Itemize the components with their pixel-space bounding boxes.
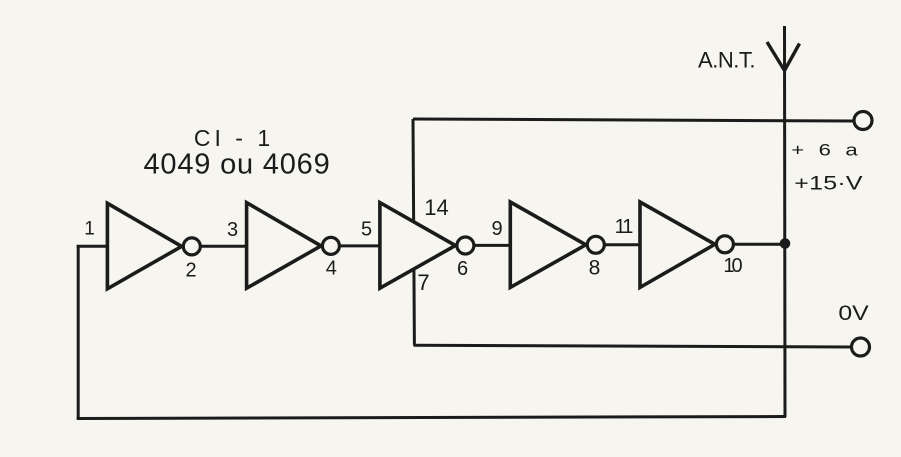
svg-text:2: 2 xyxy=(185,260,196,282)
svg-text:11: 11 xyxy=(615,216,634,238)
svg-text:14: 14 xyxy=(424,195,448,220)
svg-text:1: 1 xyxy=(84,219,95,240)
svg-text:3: 3 xyxy=(227,219,238,241)
svg-text:5: 5 xyxy=(361,218,372,240)
svg-text:CI - 1: CI - 1 xyxy=(194,125,274,151)
svg-text:7: 7 xyxy=(417,270,429,295)
svg-text:8: 8 xyxy=(589,257,601,280)
svg-text:4049 ou 4069: 4049 ou 4069 xyxy=(144,149,331,181)
svg-text:4: 4 xyxy=(326,257,337,279)
svg-text:A.N.T.: A.N.T. xyxy=(698,48,755,73)
svg-text:+15·V: +15·V xyxy=(794,172,863,194)
svg-text:6: 6 xyxy=(457,258,468,280)
svg-text:0V: 0V xyxy=(838,301,869,325)
svg-text:9: 9 xyxy=(491,218,502,240)
svg-text:+ 6 a: + 6 a xyxy=(791,141,862,160)
